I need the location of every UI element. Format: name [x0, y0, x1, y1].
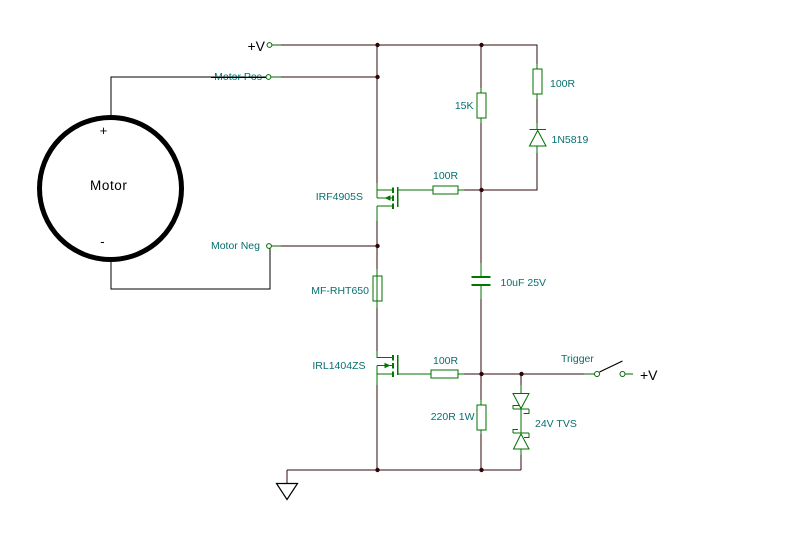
resistor 100R gate2: [458, 373, 464, 375]
wire TVS top lead: [520, 374, 522, 391]
terminal Motor Neg: [267, 244, 272, 249]
node trigger / 220R branch: [479, 372, 483, 376]
resistor 220R 1W: [480, 400, 482, 434]
wire diode branch to gate node: [481, 150, 537, 190]
wire 220R top lead: [480, 374, 482, 405]
label 100R gate1: [433, 171, 458, 182]
label motor plus: [100, 124, 108, 137]
wire bottom rail: [287, 469, 521, 471]
wire gate1 resistor right lead: [464, 189, 481, 191]
wire cap bottom lead: [480, 291, 482, 374]
motor M1 body: [40, 118, 182, 260]
label Motor Neg: [211, 241, 260, 252]
node gate1 (15K / 100R / diode branch): [479, 188, 483, 192]
resistor 100R gate1: [458, 189, 464, 191]
label 24V TVS: [535, 419, 577, 430]
wire ground stub: [286, 470, 288, 484]
wire 220R bottom lead: [480, 429, 482, 470]
transistor Q1 IRF4905S (P-ch): [377, 183, 433, 221]
wire 15K top lead: [480, 45, 482, 93]
label Motor Pos: [214, 72, 262, 83]
label IRL1404ZS: [312, 361, 365, 372]
node +V rail / main column: [375, 43, 379, 47]
label motor minus: [100, 235, 104, 248]
wire main column mid: [376, 221, 378, 272]
fuse F1 MF-RHT650: [373, 269, 382, 308]
ground: [277, 484, 298, 500]
transistor Q2 IRL1404ZS (N-ch): [377, 351, 433, 385]
diode D2 TVS top: [513, 385, 529, 433]
label 10uF 25V: [501, 278, 547, 289]
label 100R gate2: [433, 356, 458, 367]
resistor 15K: [480, 88, 482, 123]
wire main column upper: [376, 45, 378, 184]
diode 1N5819: [530, 123, 547, 153]
wire cap top lead: [480, 190, 482, 271]
diode D3 TVS bottom: [513, 430, 529, 456]
label Trigger: [561, 354, 594, 365]
node bottom rail / main column: [375, 468, 379, 472]
wire over Motor Pos label: [211, 77, 266, 78]
node trigger / TVS branch: [519, 372, 523, 376]
label 1N5819: [552, 135, 589, 146]
wire motor bottom (black): [111, 248, 270, 289]
label 100R top right: [550, 79, 575, 90]
wire top rail: [272, 45, 537, 69]
resistor 100R top right: [536, 64, 538, 99]
label +V top: [247, 39, 265, 53]
terminal +V top: [267, 43, 272, 48]
wire motor-pos rail: [281, 76, 377, 78]
node +V rail / 15K branch: [479, 43, 483, 47]
wire fuse to lower mosfet: [376, 306, 378, 353]
wire motor top (black): [111, 77, 266, 115]
label MF-RHT650: [311, 286, 369, 297]
terminal Motor Pos: [266, 75, 271, 80]
switch S1 Trigger: [584, 373, 594, 375]
wire lower mosfet source down: [376, 385, 378, 470]
wire TVS bottom lead: [520, 450, 522, 470]
wire 15K bottom lead: [480, 118, 482, 190]
label 15K: [455, 101, 474, 112]
transistor Q1 arrow: [385, 195, 391, 201]
wire 1N5819 top lead: [536, 94, 538, 129]
wire trigger rail: [464, 373, 594, 375]
wire motor-neg rail: [281, 245, 377, 247]
node Motor Neg / main column: [375, 244, 379, 248]
label IRF4905S: [316, 192, 363, 203]
label 220R 1W: [431, 412, 475, 423]
transistor Q2 arrow: [385, 363, 391, 369]
capacitor C1 10uF 25V: [480, 263, 482, 299]
node Motor Pos / main column: [375, 75, 379, 79]
label Motor: [90, 179, 128, 193]
node bottom rail / 220R branch: [479, 468, 483, 472]
label +V right: [640, 368, 658, 382]
